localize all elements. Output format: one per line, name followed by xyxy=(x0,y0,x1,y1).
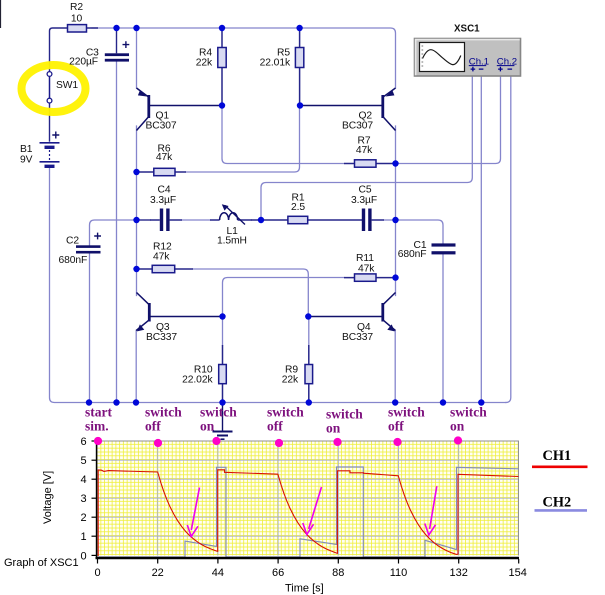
svg-text:0: 0 xyxy=(80,550,86,562)
node rail Q4 xyxy=(392,399,398,405)
graph plot border xyxy=(98,441,519,556)
svg-text:4: 4 xyxy=(80,474,86,486)
svg-text:C5: C5 xyxy=(359,185,372,196)
legend CH2 line xyxy=(535,509,588,512)
graph x tick labels xyxy=(94,567,526,579)
graph y axis xyxy=(96,438,98,559)
node rail R9 xyxy=(306,399,312,405)
svg-text:BC307: BC307 xyxy=(146,121,177,132)
svg-text:110: 110 xyxy=(390,567,408,579)
svg-text:CH2: CH2 xyxy=(543,495,572,511)
wire SW1 to battery xyxy=(49,103,51,141)
wire top rail xyxy=(92,28,396,88)
wire C2 top to mid node xyxy=(90,220,137,246)
wire Q1 base node to R7 xyxy=(222,106,344,164)
wire L1 node to scope Ch.1 plus xyxy=(261,76,472,220)
svg-text:22k: 22k xyxy=(282,375,299,386)
node R11 right xyxy=(392,274,398,280)
ground xyxy=(213,403,233,440)
wire R7 node to scope Ch.2 plus xyxy=(396,76,501,164)
transistor Q2 BC307 xyxy=(300,88,396,131)
graph x ticks xyxy=(98,559,519,564)
svg-text:start: start xyxy=(85,405,112,420)
wire C2 bottom xyxy=(89,254,91,403)
svg-text:B1: B1 xyxy=(20,144,33,155)
wire scope Ch.1 minus to ground rail xyxy=(480,76,482,403)
svg-text:3.3µF: 3.3µF xyxy=(351,195,377,206)
node rail C1 xyxy=(440,399,446,405)
graph y ticks xyxy=(92,441,97,555)
wire R1 to C5 xyxy=(308,219,362,221)
resistor R2 xyxy=(68,25,99,32)
resistor R7 xyxy=(344,160,396,167)
svg-text:Voltage [V]: Voltage [V] xyxy=(42,471,54,524)
node top rail Q1 xyxy=(133,25,139,31)
wire R10 upper lead xyxy=(222,317,224,346)
svg-text:132: 132 xyxy=(450,567,468,579)
wire C1 bottom xyxy=(442,255,444,403)
svg-text:680nF: 680nF xyxy=(59,255,88,266)
node Q2 base xyxy=(297,102,303,108)
capacitor C1 xyxy=(432,243,456,254)
capacitor C3 xyxy=(105,28,130,62)
wire Q4 emitter to ground rail xyxy=(394,331,396,403)
svg-text:10: 10 xyxy=(71,14,83,25)
graph y tick labels xyxy=(80,436,86,562)
node L1 R1 xyxy=(258,217,264,223)
wire Q1 emitter feed xyxy=(136,28,138,88)
curve CH1 red xyxy=(98,470,518,556)
wire Q2 collector to Q4 collector xyxy=(395,126,397,296)
wire Q3 emitter to ground rail xyxy=(135,331,137,403)
svg-text:220µF: 220µF xyxy=(69,57,98,68)
svg-text:1: 1 xyxy=(80,531,86,543)
svg-text:switch: switch xyxy=(200,405,237,420)
svg-text:3: 3 xyxy=(80,493,86,505)
node top rail R5 xyxy=(296,25,302,31)
resistor R6 xyxy=(137,168,187,175)
svg-text:47k: 47k xyxy=(153,252,170,263)
wire Q3 base node to R11 xyxy=(223,278,345,317)
svg-text:0: 0 xyxy=(94,567,100,579)
svg-text:1.5mH: 1.5mH xyxy=(217,236,247,247)
svg-text:on: on xyxy=(200,419,215,434)
svg-text:22: 22 xyxy=(152,567,164,579)
battery B1 xyxy=(40,132,60,167)
svg-text:154: 154 xyxy=(509,567,527,579)
svg-text:22.01k: 22.01k xyxy=(260,58,291,69)
node mid left xyxy=(133,217,139,223)
svg-text:88: 88 xyxy=(332,567,344,579)
svg-text:22.02k: 22.02k xyxy=(182,375,213,386)
node R7 right xyxy=(392,160,398,166)
curve CH2 blue xyxy=(98,467,518,557)
svg-text:switch: switch xyxy=(326,407,363,422)
svg-text:5: 5 xyxy=(80,455,86,467)
wire bottom rail xyxy=(89,402,506,404)
svg-text:on: on xyxy=(326,421,341,436)
capacitor C5 xyxy=(362,209,384,232)
svg-text:on: on xyxy=(450,419,465,434)
svg-text:3.3µF: 3.3µF xyxy=(150,195,176,206)
node rail C3 xyxy=(113,399,119,405)
wire battery to bottom rail xyxy=(50,169,90,403)
node R6 left xyxy=(133,169,139,175)
svg-text:9V: 9V xyxy=(20,155,33,166)
svg-text:2: 2 xyxy=(80,512,86,524)
svg-text:47k: 47k xyxy=(156,152,173,163)
capacitor C4 xyxy=(150,209,182,232)
svg-text:Time [s]: Time [s] xyxy=(285,583,324,595)
svg-text:CH1: CH1 xyxy=(543,448,572,464)
node mid right xyxy=(392,217,398,223)
svg-text:sim.: sim. xyxy=(85,419,109,434)
svg-text:switch: switch xyxy=(267,405,304,420)
node top rail R4 xyxy=(219,25,225,31)
svg-text:6: 6 xyxy=(80,436,86,448)
resistor R11 xyxy=(344,274,396,281)
wire R6 to Q2 base node xyxy=(186,106,300,173)
capacitor C2 xyxy=(76,233,101,254)
node rail Q3 xyxy=(133,399,139,405)
node rail C2 xyxy=(86,399,92,405)
svg-text:C4: C4 xyxy=(158,185,171,196)
svg-text:XSC1: XSC1 xyxy=(454,24,480,35)
svg-text:BC307: BC307 xyxy=(342,121,373,132)
wire Q1 collector to Q3 collector xyxy=(136,126,138,296)
node Q3 base xyxy=(219,313,225,319)
wire R9 upper lead xyxy=(308,317,310,346)
svg-text:SW1: SW1 xyxy=(56,80,78,91)
svg-text:47k: 47k xyxy=(356,145,373,156)
svg-text:R2: R2 xyxy=(70,2,83,13)
resistor R5 xyxy=(295,28,303,106)
wire R12 to Q4 base node xyxy=(193,269,308,317)
magenta arrow 2 xyxy=(303,487,322,535)
legend CH1 line xyxy=(532,465,588,468)
svg-text:2.5: 2.5 xyxy=(291,202,305,213)
graph plot area background xyxy=(98,441,519,556)
resistor R12 xyxy=(137,265,194,272)
wire scope Ch.2 minus to ground rail xyxy=(506,76,511,403)
resistor R10 xyxy=(219,345,227,403)
wire L1 to R1 xyxy=(252,219,288,221)
svg-text:off: off xyxy=(145,419,161,434)
yellow highlight ellipse xyxy=(22,65,86,112)
transistor Q3 BC337 xyxy=(136,293,222,332)
svg-text:66: 66 xyxy=(272,567,284,579)
node rail R10 xyxy=(219,399,225,405)
wire mid rail left xyxy=(137,219,151,221)
resistor R9 xyxy=(305,345,313,403)
svg-text:680nF: 680nF xyxy=(398,249,427,260)
svg-text:BC337: BC337 xyxy=(146,332,177,343)
svg-text:C2: C2 xyxy=(66,236,79,247)
inductor L1 xyxy=(210,204,252,224)
node Q4 base xyxy=(305,313,311,319)
svg-text:off: off xyxy=(267,419,283,434)
screenshot edge artifact xyxy=(0,0,2,28)
resistor R4 xyxy=(218,28,226,106)
node top rail C3 xyxy=(113,25,119,31)
node Q1 base xyxy=(219,102,225,108)
svg-text:off: off xyxy=(388,419,404,434)
svg-text:switch: switch xyxy=(145,405,182,420)
wire mid node to C1 xyxy=(396,220,444,243)
wire C3 vertical xyxy=(116,62,118,403)
node R12 left xyxy=(133,266,139,272)
svg-text:44: 44 xyxy=(212,567,224,579)
magenta arrow 3 xyxy=(425,486,437,535)
graph x axis xyxy=(96,557,520,559)
wire C4 to L1 xyxy=(182,219,210,221)
node rail Ch1 minus xyxy=(478,399,484,405)
wire top-left to SW1 xyxy=(50,28,68,72)
svg-text:Graph of XSC1: Graph of XSC1 xyxy=(4,557,79,569)
wire C5 to Q2 collector line xyxy=(384,219,396,221)
svg-text:R11: R11 xyxy=(356,253,374,264)
annotation event dots xyxy=(94,436,462,447)
svg-text:switch: switch xyxy=(450,405,487,420)
magenta arrow 1 xyxy=(187,488,199,537)
svg-text:BC337: BC337 xyxy=(342,332,373,343)
oscilloscope XSC1 xyxy=(415,39,521,77)
transistor Q1 BC307 xyxy=(137,88,223,131)
transistor Q4 BC337 xyxy=(308,293,395,332)
svg-text:switch: switch xyxy=(388,405,425,420)
resistor R1 xyxy=(288,216,308,223)
switch SW1 xyxy=(47,72,52,103)
svg-text:22k: 22k xyxy=(196,58,213,69)
svg-text:47k: 47k xyxy=(358,264,375,275)
graph major gridlines xyxy=(98,441,519,556)
